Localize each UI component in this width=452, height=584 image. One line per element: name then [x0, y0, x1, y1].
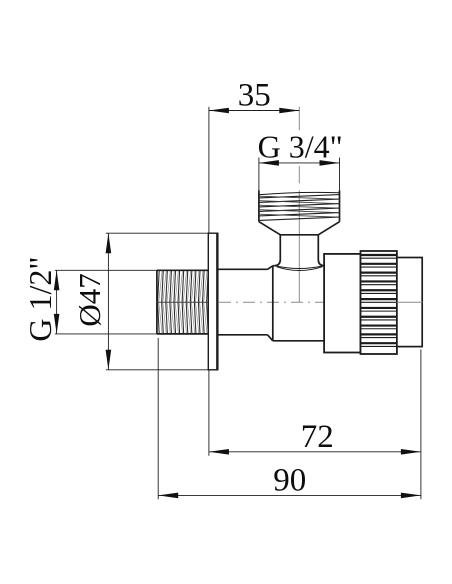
body inlet cylinder	[218, 266, 273, 341]
dimension 90	[158, 338, 421, 499]
centerline across cap	[397, 301, 423, 303]
inlet thread mid line	[157, 301, 208, 303]
wall flange plate	[208, 233, 217, 370]
svg-text:G 3/4": G 3/4"	[258, 128, 343, 164]
handle knurled grip	[361, 251, 397, 354]
svg-text:90: 90	[273, 463, 306, 499]
vertical centerline of outlet	[298, 107, 300, 302]
dimension G 1/2"	[22, 257, 157, 342]
handle end cap	[397, 258, 422, 347]
handle base ring	[324, 254, 360, 353]
svg-text:72: 72	[301, 419, 334, 455]
fillet arcs neck-body junction	[275, 266, 325, 271]
horizontal centerline of valve	[219, 301, 423, 303]
dimension Ø47	[72, 233, 208, 370]
dimension 35	[209, 78, 299, 234]
svg-text:G 1/2": G 1/2"	[22, 257, 58, 342]
outlet male thread G3/4	[259, 190, 340, 222]
outlet neck	[275, 235, 324, 266]
shared right extension line	[420, 349, 422, 499]
valve body hex section	[273, 266, 324, 341]
svg-text:35: 35	[238, 78, 271, 114]
svg-text:Ø47: Ø47	[72, 273, 107, 326]
outlet cone shoulder	[259, 222, 340, 235]
inlet male thread G1/2	[157, 270, 208, 334]
dimension G 3/4"	[258, 128, 343, 190]
dimension 72	[209, 370, 421, 456]
